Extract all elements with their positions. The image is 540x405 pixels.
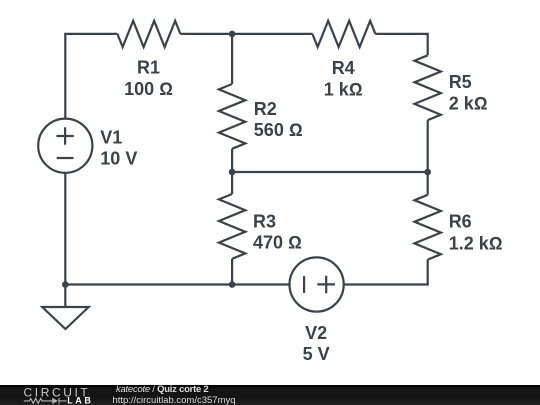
svg-text:1.2 kΩ: 1.2 kΩ [449, 233, 503, 253]
svg-text:470 Ω: 470 Ω [253, 233, 302, 253]
svg-text:R5: R5 [449, 72, 472, 92]
svg-text:1 kΩ: 1 kΩ [324, 79, 363, 99]
svg-text:V1: V1 [100, 127, 122, 147]
svg-text:R2: R2 [254, 99, 277, 119]
svg-text:V2: V2 [305, 323, 327, 343]
svg-text:560 Ω: 560 Ω [254, 120, 303, 140]
svg-text:R3: R3 [253, 211, 276, 231]
svg-text:LAB: LAB [67, 396, 93, 405]
svg-text:R1: R1 [137, 58, 160, 78]
svg-text:2 kΩ: 2 kΩ [449, 94, 488, 114]
svg-text:R4: R4 [332, 58, 355, 78]
svg-text:R6: R6 [449, 212, 472, 232]
svg-text:http://circuitlab.com/c357myq: http://circuitlab.com/c357myq [113, 395, 236, 405]
svg-text:100 Ω: 100 Ω [124, 79, 173, 99]
svg-text:10 V: 10 V [100, 149, 137, 169]
svg-text:5 V: 5 V [303, 344, 330, 364]
svg-text:katecote / Quiz corte 2: katecote / Quiz corte 2 [116, 384, 208, 395]
